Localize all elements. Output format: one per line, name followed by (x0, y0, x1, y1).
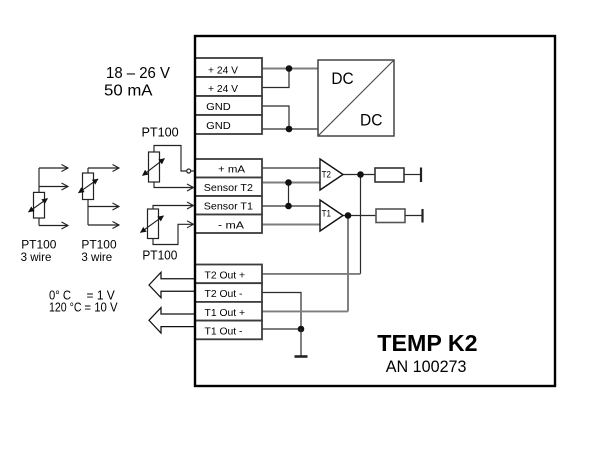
output arrow T1 (big open arrow pointing left) (149, 308, 196, 333)
wire S3 top to +mA (154, 146, 186, 172)
svg-text:3 wire: 3 wire (81, 250, 112, 264)
terminal -mA (195, 215, 262, 234)
wire S1 bottom (39, 225, 68, 227)
svg-text:DC: DC (331, 69, 353, 88)
sensor PT100 #1 (3 wire) (29, 168, 69, 226)
wire S4 bottom to -mA (153, 224, 194, 244)
junction dot output common (298, 326, 305, 333)
wire T1 output drop to T1 Out+ (347, 216, 349, 312)
svg-text:3 wire: 3 wire (21, 250, 52, 264)
terminal T2 Out+ (195, 265, 262, 284)
wire +24V(2) riser (262, 69, 289, 88)
wire S2 mid (88, 206, 119, 208)
svg-text:GND: GND (206, 101, 231, 113)
wire S4 top to Sensor T1 (153, 206, 194, 210)
adjust arrow S2 (79, 179, 99, 193)
terminal bar R1 (420, 168, 422, 183)
svg-text:Sensor T2: Sensor T2 (204, 182, 253, 194)
wire S2 top (88, 167, 119, 169)
op-amp T2 (320, 159, 343, 190)
terminal +mA (195, 159, 262, 178)
wire T1 Out+ (262, 310, 348, 312)
terminal +24V (1) (195, 58, 262, 77)
resistor body S1 (34, 192, 45, 218)
terminal Sensor T2 (195, 178, 262, 197)
DC/DC converter U1 (318, 60, 394, 136)
svg-text:DC: DC (360, 111, 382, 130)
resistor body S3 (149, 152, 160, 182)
node circle S3 (187, 169, 191, 173)
svg-text:AN 100273: AN 100273 (386, 357, 467, 376)
wire S3 bottom to Sensor T2 (154, 182, 194, 188)
terminal GND (2) (195, 115, 262, 134)
wire -mA to T1 input (262, 224, 320, 226)
sensor PT100 #2 (3 wire) (79, 168, 120, 225)
wire T2 output drop to T2 Out+ (360, 175, 362, 274)
junction dot GND node (286, 126, 293, 133)
wire S3 circle to box (191, 170, 195, 172)
wire S1 bottom stub (38, 218, 40, 226)
wire T1 output (343, 215, 376, 217)
svg-text:- mA: - mA (218, 219, 244, 231)
terminal Sensor T1 (195, 196, 262, 215)
junction dot T2 output (357, 171, 364, 178)
wire S1 vertical (38, 168, 40, 193)
wire sensor link vertical (288, 183, 290, 207)
adjust arrow S1 (29, 199, 48, 213)
svg-text:PT100: PT100 (142, 249, 177, 263)
wire GND(1) dropper (262, 106, 289, 129)
svg-text:+ 24 V: + 24 V (208, 64, 238, 76)
svg-text:T2 Out -: T2 Out - (205, 288, 243, 300)
svg-text:TEMP K2: TEMP K2 (377, 330, 477, 356)
junction dot sensor T1 (285, 203, 292, 210)
terminal bar R2 (421, 209, 423, 223)
resistor body S2 (83, 173, 94, 200)
svg-text:T1 Out -: T1 Out - (205, 326, 243, 338)
svg-text:= 10 V: = 10 V (84, 300, 117, 315)
wire Sensor T2 to T2 input (262, 182, 320, 184)
svg-text:+ 24 V: + 24 V (208, 83, 238, 95)
svg-text:PT100: PT100 (142, 124, 179, 139)
wire S1 mid (39, 186, 68, 188)
junction dot T1 output (345, 212, 352, 219)
svg-text:50 mA: 50 mA (104, 82, 153, 99)
module outline (195, 36, 555, 386)
wire T2 Out+ (262, 273, 361, 275)
wire T2 output (343, 174, 375, 176)
wire Sensor T1 to T1 input (262, 205, 320, 207)
wire R2 to terminal (405, 215, 422, 217)
terminal GND (1) (195, 96, 262, 115)
adjust arrow S3 (143, 159, 165, 176)
wire T1 Out- (262, 328, 301, 330)
svg-text:GND: GND (206, 120, 231, 132)
junction dot sensor T2 (285, 179, 292, 186)
wire S1 top (39, 167, 68, 169)
wire R1 to terminal (404, 174, 420, 176)
resistor R1 (375, 168, 404, 182)
terminal T1 Out+ (195, 302, 262, 321)
wire S2 top stub (87, 168, 89, 173)
wire +24V(1) to DC/DC (262, 68, 318, 70)
wire S2 vertical (87, 200, 89, 226)
svg-text:120 °C: 120 °C (49, 300, 82, 315)
terminal +24V (2) (195, 77, 262, 96)
svg-text:18 – 26 V: 18 – 26 V (106, 65, 171, 82)
wire +mA to T2 input (262, 167, 320, 169)
svg-text:T2 Out +: T2 Out + (205, 269, 246, 281)
wire T2 Out- dropper (262, 293, 301, 330)
wire S2 bottom (88, 224, 119, 226)
ground (300, 329, 302, 356)
terminal T1 Out- (195, 321, 262, 340)
wire GND(2) to DC/DC (262, 128, 318, 130)
resistor body S4 (148, 209, 159, 239)
svg-text:T2: T2 (322, 170, 331, 180)
svg-text:Sensor T1: Sensor T1 (204, 201, 253, 213)
terminal T2 Out- (195, 283, 262, 302)
op-amp T1 (320, 200, 343, 231)
resistor R2 (376, 209, 405, 223)
svg-text:+ mA: + mA (218, 164, 245, 176)
svg-text:T1 Out +: T1 Out + (205, 307, 246, 319)
svg-text:T1: T1 (322, 208, 331, 218)
adjust arrow S4 (141, 216, 164, 233)
sensor PT100 #4 (141, 206, 194, 245)
output arrow T2 (big open arrow pointing left) (149, 272, 196, 297)
junction dot +24V node (286, 65, 293, 72)
sensor PT100 #3 (143, 146, 195, 188)
